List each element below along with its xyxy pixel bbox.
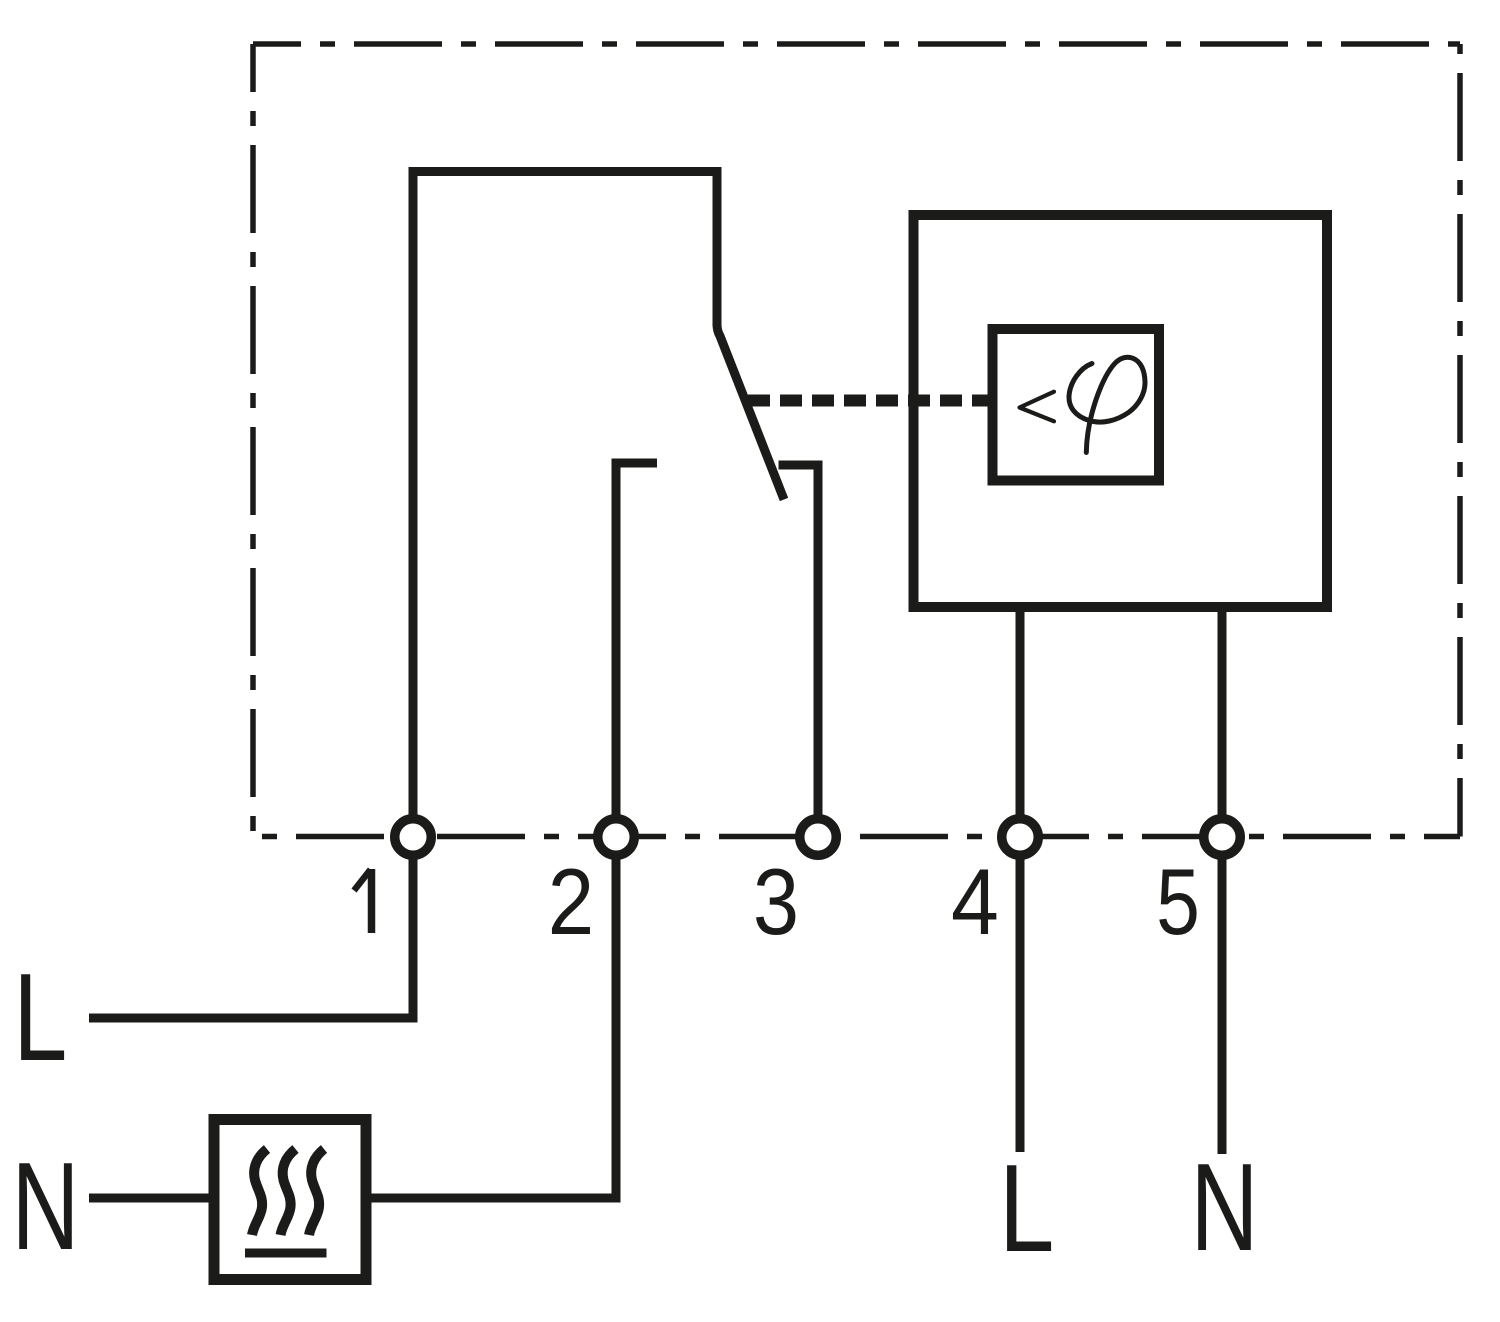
wire: terminal 4 down to load L bbox=[1016, 860, 1025, 1153]
device outline right (dash-dot boundary) bbox=[1457, 44, 1463, 837]
svg-text:L: L bbox=[13, 948, 67, 1087]
svg-text:L: L bbox=[999, 1139, 1055, 1278]
svg-text:5: 5 bbox=[1156, 849, 1200, 954]
less-than mark "<" bbox=[1020, 392, 1055, 422]
device outline top (dash-dot boundary) bbox=[253, 41, 1460, 47]
svg-text:N: N bbox=[1191, 1138, 1259, 1277]
humidity sensor element (inner box) bbox=[993, 329, 1160, 481]
svg-text:2: 2 bbox=[548, 849, 594, 954]
switch fixed contact and wire to terminal 3 bbox=[779, 465, 819, 815]
hygrostat unit U1 (outer box) bbox=[914, 215, 1328, 607]
phi symbol (relative humidity) bbox=[1069, 357, 1145, 452]
terminal 5 bbox=[1204, 819, 1241, 856]
svg-text:N: N bbox=[12, 1137, 80, 1276]
heating element symbol (three waves and base line) bbox=[245, 1149, 327, 1253]
wire: terminal 2 down and left to heater bbox=[366, 860, 616, 1199]
wire: U1 to terminal 4 bbox=[1016, 607, 1025, 815]
switch S1 moving contact arm bbox=[717, 324, 784, 500]
wire: terminal 2 riser with hook bbox=[616, 463, 657, 815]
control link (dashed) from switch arm to humidity sensor bbox=[748, 395, 990, 407]
device outline left (dash-dot boundary) bbox=[250, 44, 256, 837]
wire: terminal 5 down to load N bbox=[1218, 860, 1227, 1155]
svg-text:3: 3 bbox=[753, 849, 799, 954]
heater R1 (box) bbox=[214, 1120, 366, 1280]
device outline bottom (dash-dot boundary) bbox=[253, 834, 1460, 840]
terminal 2 bbox=[598, 819, 635, 856]
terminal label 1 bbox=[354, 869, 372, 933]
svg-text:4: 4 bbox=[951, 850, 999, 955]
wire: heater to supply N bbox=[89, 1194, 214, 1203]
terminal 1 bbox=[395, 819, 432, 856]
terminal 4 bbox=[1002, 819, 1039, 856]
wire: U1 to terminal 5 bbox=[1218, 607, 1227, 815]
wire: terminal 1 riser and top run to switch bbox=[413, 172, 717, 815]
terminal 3 bbox=[800, 819, 837, 856]
wire: terminal 1 down and left to supply L bbox=[89, 860, 413, 1019]
